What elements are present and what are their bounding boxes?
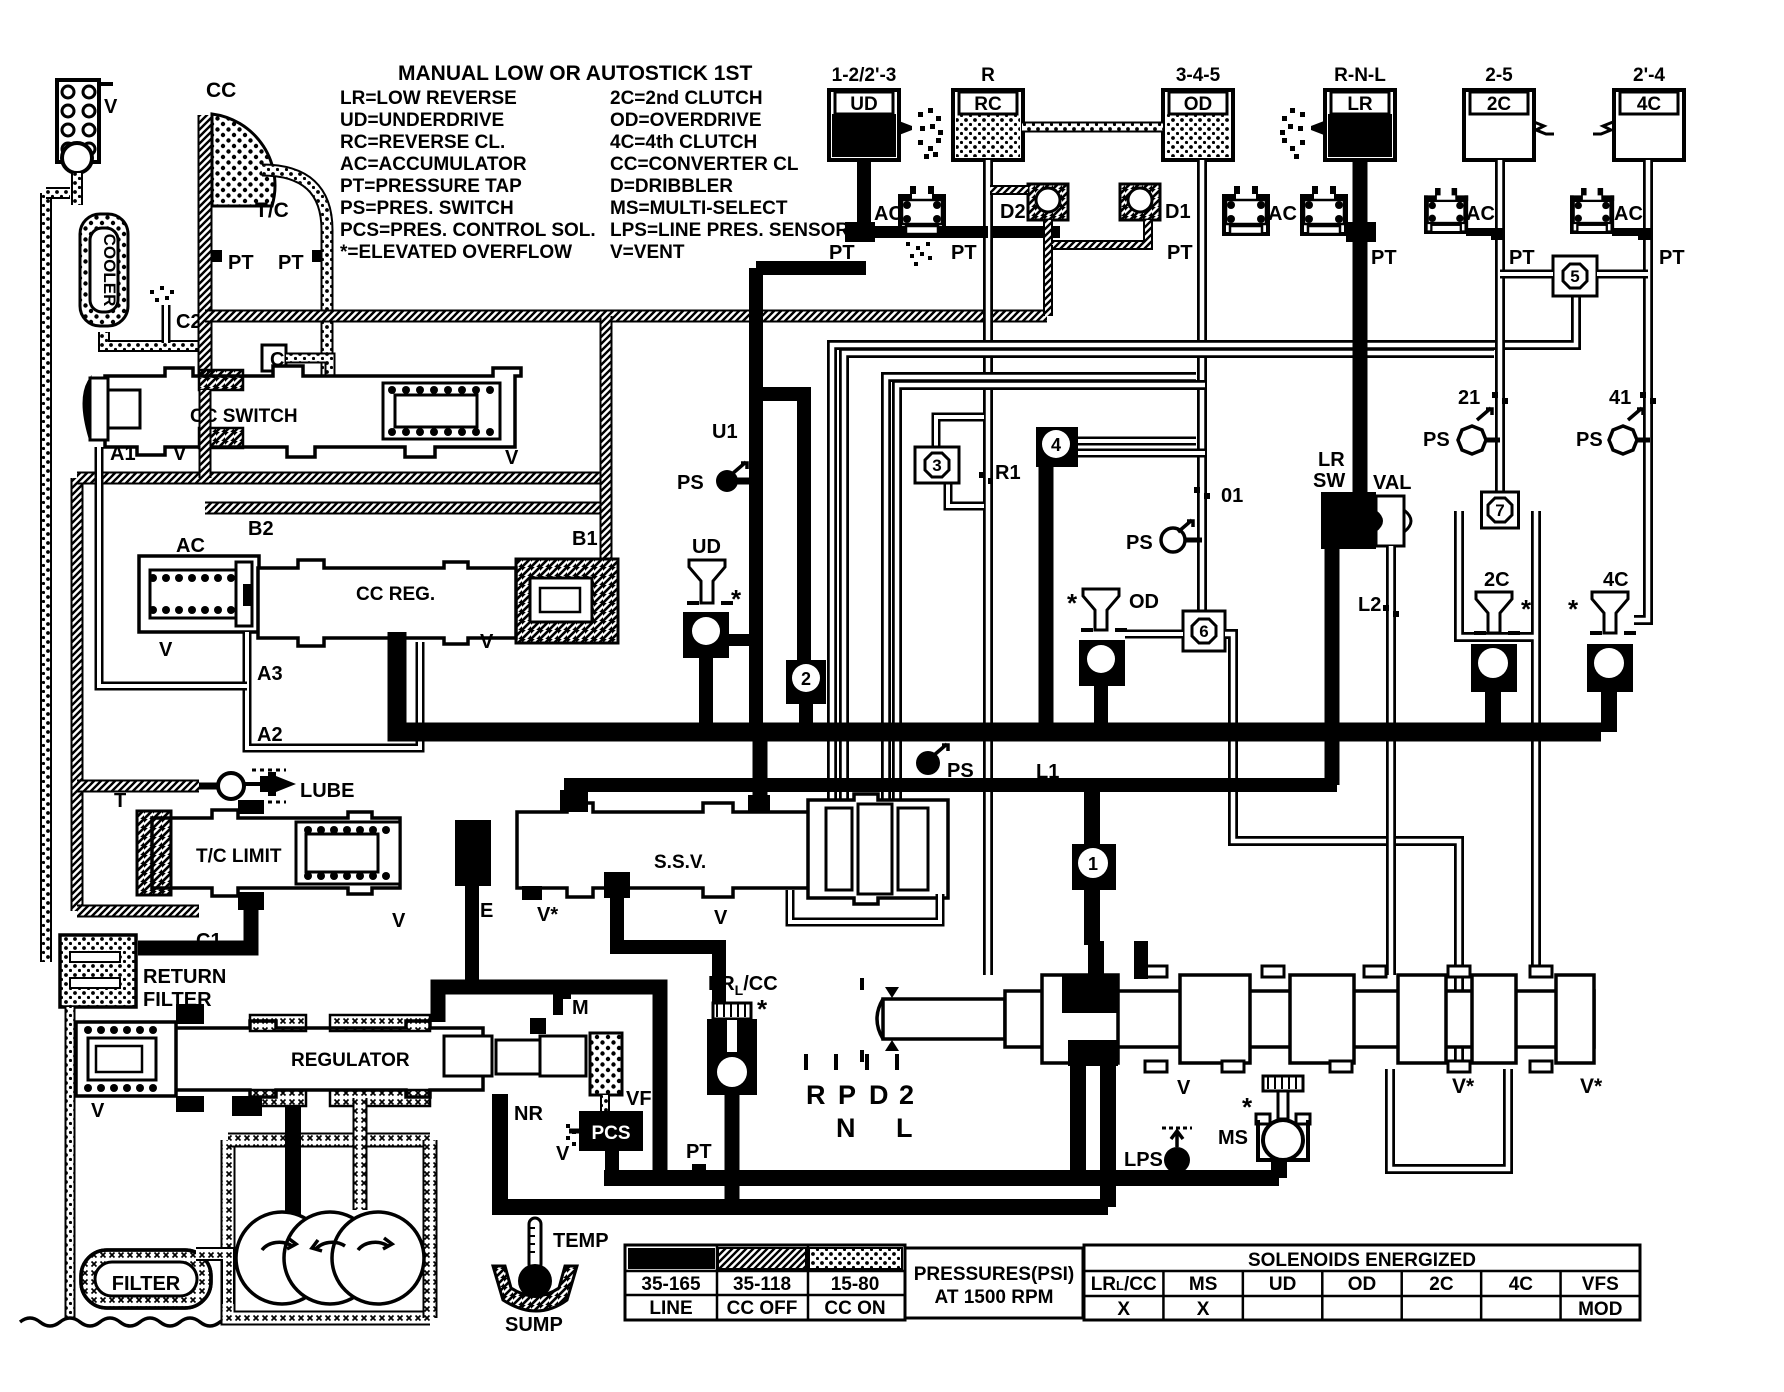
C port box: [262, 345, 286, 371]
svg-text:41: 41: [1609, 387, 1631, 409]
svg-text:2'-4: 2'-4: [1633, 65, 1665, 86]
solenoids table: [1084, 1245, 1640, 1320]
svg-text:2C: 2C: [1429, 1274, 1454, 1295]
valve S.S.V.: [517, 803, 939, 897]
orifice R1 tick: [979, 472, 993, 484]
wire UD clutch feed: [857, 160, 871, 232]
svg-text:CC OFF: CC OFF: [727, 1298, 798, 1319]
orifice 1 box overlay: [1072, 844, 1116, 890]
valve 7 junction: [1482, 492, 1519, 528]
wire from valve 6 down: [1225, 634, 1459, 1061]
svg-text:CC REG.: CC REG.: [356, 584, 435, 605]
svg-text:35-118: 35-118: [733, 1274, 791, 1295]
svg-text:PT: PT: [686, 1141, 712, 1163]
svg-text:R1: R1: [995, 462, 1021, 484]
sump bowl: [493, 1266, 577, 1311]
svg-text:*: *: [1568, 594, 1579, 624]
svg-text:3: 3: [932, 456, 941, 475]
wire L1 bus overlay: [564, 778, 1337, 792]
svg-text:V: V: [392, 910, 406, 932]
dribbler D2: [1028, 184, 1068, 220]
wire A1 line: [99, 447, 247, 686]
wire SSV drain to LRL/CC: [617, 890, 719, 1008]
wire hatched bus B2 lower: [205, 502, 606, 515]
T/C dotted wall right: [262, 170, 327, 378]
CC REG hatched end B1: [516, 559, 618, 643]
svg-text:CC=CONVERTER CL: CC=CONVERTER CL: [610, 154, 799, 175]
svg-text:7: 7: [1495, 501, 1504, 520]
valve T/C LIMIT: [152, 810, 400, 896]
wire web W1: [832, 295, 1576, 809]
wire 4 feed down: [1039, 467, 1054, 732]
svg-text:E: E: [480, 900, 493, 922]
wire MS to bus4: [1271, 1160, 1287, 1178]
wire return filter down: [65, 1007, 76, 1320]
svg-text:PT: PT: [1509, 247, 1535, 269]
svg-text:V*: V*: [537, 904, 558, 926]
svg-text:UD: UD: [692, 536, 721, 558]
svg-text:R: R: [806, 1080, 826, 1110]
svg-text:*=ELEVATED OVERFLOW: *=ELEVATED OVERFLOW: [340, 242, 572, 263]
wire 2C clutch line: [1495, 160, 1505, 501]
svg-text:OD: OD: [1348, 1274, 1377, 1295]
manual valve lands: [1042, 975, 1118, 1063]
svg-text:PT: PT: [1659, 247, 1685, 269]
wire OD clutch line: [1197, 160, 1207, 618]
svg-text:LUBE: LUBE: [300, 780, 354, 802]
svg-text:V: V: [556, 1143, 570, 1165]
x-hatch pump channel right: [423, 1140, 438, 1318]
wire SSV loop below: [790, 890, 940, 922]
wire L1 bus: [573, 785, 1337, 810]
svg-text:MANUAL LOW OR AUTOSTICK 1ST: MANUAL LOW OR AUTOSTICK 1ST: [398, 62, 752, 85]
wire C1 line: [138, 895, 251, 948]
wire bus4: [604, 1170, 1279, 1186]
svg-text:V: V: [159, 639, 173, 661]
svg-text:V: V: [91, 1100, 105, 1122]
SSV right spool: [808, 794, 948, 904]
svg-text:S.S.V.: S.S.V.: [654, 852, 706, 873]
svg-text:01: 01: [1221, 485, 1243, 507]
svg-text:4: 4: [1051, 435, 1061, 455]
svg-text:PS: PS: [1576, 429, 1603, 451]
pressure legend table: [625, 1245, 905, 1320]
wire 4 line: [1078, 437, 1196, 446]
svg-text:V*: V*: [1580, 1075, 1603, 1098]
svg-text:PT: PT: [1167, 242, 1193, 264]
wire LR valve to L1 overlay: [1325, 549, 1340, 785]
wire main line bus: [397, 632, 1601, 732]
accumulator AC at UD: [898, 186, 946, 236]
svg-text:UD: UD: [1269, 1274, 1296, 1295]
svg-text:PS: PS: [1423, 429, 1450, 451]
valve 6 junction: [1183, 611, 1225, 651]
wire web R1 to valve 3: [936, 417, 984, 451]
valve REGULATOR: [170, 1021, 483, 1097]
wire UD line overlay: [749, 268, 763, 732]
wire LR clutch feed: [1353, 160, 1368, 496]
filter pickup: [81, 1250, 211, 1308]
wire UD to SSV port: [753, 732, 768, 800]
svg-text:A3: A3: [257, 663, 283, 685]
svg-text:SOLENOIDS ENERGIZED: SOLENOIDS ENERGIZED: [1248, 1250, 1476, 1271]
CC SWITCH spring: [383, 383, 500, 439]
svg-text:LR=LOW REVERSE: LR=LOW REVERSE: [340, 88, 517, 109]
svg-text:MOD: MOD: [1578, 1299, 1622, 1320]
svg-text:U1: U1: [712, 421, 738, 443]
wire dotted left return channel: [40, 193, 52, 962]
wire web W3: [886, 377, 1196, 809]
svg-text:LRL/CC: LRL/CC: [1091, 1274, 1157, 1295]
svg-text:PRESSURES(PSI): PRESSURES(PSI): [914, 1264, 1074, 1285]
wire A3 A2 line: [247, 632, 420, 748]
sump surface wave: [20, 1318, 240, 1326]
svg-text:PT=PRESSURE TAP: PT=PRESSURE TAP: [340, 176, 522, 197]
svg-text:SUMP: SUMP: [505, 1314, 563, 1336]
wire bus3 overlay: [438, 980, 660, 995]
wire 5 connections: [1500, 270, 1553, 279]
svg-text:D1: D1: [1165, 201, 1191, 223]
wire web W4: [897, 385, 1205, 809]
connector squiggle 2C: [1534, 122, 1554, 134]
svg-text:D=DRIBBLER: D=DRIBBLER: [610, 176, 733, 197]
svg-text:CC ON: CC ON: [824, 1298, 885, 1319]
svg-text:AC: AC: [1268, 203, 1297, 225]
valve manual spool: [883, 999, 1005, 1039]
wire bus5 overlay: [500, 1199, 1108, 1215]
svg-text:AC: AC: [176, 535, 205, 557]
x-hatch inner channel: [353, 1098, 368, 1210]
wire hatched T/C to D2 bus: [205, 310, 1047, 323]
svg-text:P: P: [838, 1080, 856, 1110]
valve CC SWITCH: [105, 366, 521, 457]
wire hatched RC to D2: [990, 185, 1028, 195]
wire bus3: [438, 987, 660, 1178]
svg-text:PT: PT: [951, 242, 977, 264]
svg-text:UD=UNDERDRIVE: UD=UNDERDRIVE: [340, 110, 504, 131]
wire 4C clutch line: [1643, 160, 1653, 595]
orifice 2: [786, 660, 826, 704]
wire hatched dribbler channel: [1048, 220, 1148, 245]
vent spray at UD: [899, 121, 912, 135]
wire RC clutch line: [983, 160, 993, 975]
T/C converter clutch dotted blob: [212, 114, 275, 206]
svg-text:V: V: [714, 907, 728, 929]
SSV black ports: [560, 790, 588, 812]
svg-text:PT: PT: [278, 252, 304, 274]
wire L1 to SSV: [566, 798, 580, 810]
wire 4C right loop: [1634, 595, 1648, 620]
solenoid E: [455, 820, 491, 886]
dribbler D1: [1120, 184, 1160, 220]
svg-text:*: *: [1242, 1092, 1253, 1122]
svg-text:X: X: [1197, 1299, 1210, 1320]
svg-text:2: 2: [899, 1080, 914, 1110]
svg-text:LINE: LINE: [649, 1298, 692, 1319]
svg-text:V: V: [1177, 1077, 1191, 1099]
svg-text:VF: VF: [626, 1088, 652, 1110]
svg-text:OD=OVERDRIVE: OD=OVERDRIVE: [610, 110, 762, 131]
manual valve port bumps: [1145, 966, 1167, 977]
svg-text:MS: MS: [1218, 1127, 1248, 1149]
svg-text:*: *: [731, 584, 742, 614]
svg-text:UD: UD: [850, 94, 877, 115]
svg-text:PS: PS: [1126, 532, 1153, 554]
svg-text:V: V: [104, 96, 118, 118]
svg-text:V: V: [480, 631, 494, 653]
svg-text:REGULATOR: REGULATOR: [291, 1050, 410, 1071]
svg-text:4C=4th CLUTCH: 4C=4th CLUTCH: [610, 132, 757, 153]
wire hatched through CC SWITCH: [199, 390, 212, 478]
svg-text:PT: PT: [228, 252, 254, 274]
svg-text:L: L: [896, 1113, 913, 1143]
svg-text:SW: SW: [1313, 470, 1345, 492]
svg-text:D2: D2: [1000, 201, 1026, 223]
wire PCS to bus4: [604, 1151, 612, 1178]
wire VF dotted: [600, 1095, 610, 1111]
svg-text:C1: C1: [196, 930, 222, 952]
svg-text:2C: 2C: [1487, 94, 1512, 115]
svg-text:LR: LR: [1347, 94, 1373, 115]
svg-text:4C: 4C: [1603, 569, 1629, 591]
wire LR feed overlay: [1353, 160, 1368, 496]
wire UD branch to orifice 2: [756, 394, 804, 666]
wire dotted C to CC switch: [286, 358, 330, 378]
svg-text:RC=REVERSE CL.: RC=REVERSE CL.: [340, 132, 505, 153]
svg-text:B2: B2: [248, 518, 274, 540]
REGULATOR spring box: [76, 1022, 176, 1096]
T/C LIMIT spring: [296, 822, 400, 884]
wire VAL line down L2: [1386, 546, 1396, 975]
wire bus5: [500, 1199, 1108, 1215]
svg-text:V=VENT: V=VENT: [610, 242, 685, 263]
wire hatched bottom to T frame: [77, 905, 199, 918]
svg-text:R-N-L: R-N-L: [1334, 65, 1386, 86]
svg-text:1: 1: [1088, 854, 1098, 874]
orifice 1 box: [1084, 785, 1100, 860]
svg-text:R: R: [981, 65, 995, 86]
svg-text:FILTER: FILTER: [112, 1273, 181, 1295]
svg-text:PCS=PRES. CONTROL SOL.: PCS=PRES. CONTROL SOL.: [340, 220, 596, 241]
wire UD line down: [756, 261, 866, 275]
svg-text:T/C LIMIT: T/C LIMIT: [196, 846, 282, 867]
vent spray at LR: [1311, 121, 1324, 135]
svg-text:AC=ACCUMULATOR: AC=ACCUMULATOR: [340, 154, 527, 175]
svg-text:4C: 4C: [1509, 1274, 1534, 1295]
svg-text:6: 6: [1199, 622, 1208, 641]
svg-text:LR: LR: [1318, 449, 1345, 471]
svg-text:RC: RC: [974, 94, 1002, 115]
manual valve left arrows: [885, 987, 899, 1051]
svg-text:M: M: [572, 997, 589, 1019]
wire dotted vent down to left channel: [46, 187, 70, 199]
wire orifice 1 feed overlay: [1084, 785, 1100, 860]
C2 tap: [162, 305, 171, 343]
wire web W2: [844, 353, 1494, 809]
svg-text:LPS=LINE PRES. SENSOR: LPS=LINE PRES. SENSOR: [610, 220, 849, 241]
svg-text:L2: L2: [1358, 594, 1381, 616]
wire 2C valve loop: [1459, 511, 1536, 975]
svg-text:B1: B1: [572, 528, 598, 550]
return filter: [60, 935, 136, 1007]
svg-text:PT: PT: [829, 242, 855, 264]
connector squiggle 4C: [1593, 122, 1613, 134]
svg-text:V: V: [173, 443, 187, 465]
svg-text:PCS: PCS: [591, 1123, 630, 1144]
svg-text:15-80: 15-80: [831, 1274, 880, 1295]
svg-text:2C=2nd CLUTCH: 2C=2nd CLUTCH: [610, 88, 763, 109]
svg-text:LRL/CC: LRL/CC: [708, 973, 778, 998]
svg-text:AT 1500 RPM: AT 1500 RPM: [935, 1287, 1054, 1308]
svg-text:2C: 2C: [1484, 569, 1510, 591]
svg-text:*: *: [1521, 594, 1532, 624]
svg-text:PS=PRES. SWITCH: PS=PRES. SWITCH: [340, 198, 514, 219]
svg-text:2: 2: [801, 669, 811, 689]
x-hatch pump channel left: [228, 1140, 430, 1318]
svg-text:NR: NR: [514, 1103, 543, 1125]
wire manual valve drops: [1070, 1063, 1086, 1178]
wire hatched D2 to bus: [1043, 245, 1053, 316]
svg-text:T: T: [114, 790, 126, 812]
vent V top-left: [57, 80, 99, 162]
cooler: [80, 214, 128, 326]
wire main line bus overlay: [397, 723, 1601, 742]
svg-text:35-165: 35-165: [641, 1274, 701, 1295]
svg-text:AC: AC: [874, 203, 903, 225]
accumulator AC at 2C: [1424, 188, 1468, 234]
svg-text:*: *: [1067, 588, 1078, 618]
manual valve black sections: [1062, 975, 1118, 1013]
svg-text:4C: 4C: [1637, 94, 1662, 115]
accumulator AC at 4C: [1570, 188, 1614, 234]
wire hatched vertical to CC REG: [600, 316, 613, 560]
svg-text:OD: OD: [1184, 94, 1213, 115]
svg-text:RETURN: RETURN: [143, 966, 226, 988]
wire regulator to pump: [285, 1106, 301, 1216]
svg-text:D: D: [869, 1080, 889, 1110]
valve 3 junction: [915, 447, 959, 483]
svg-text:V: V: [505, 447, 519, 469]
svg-text:LPS: LPS: [1124, 1149, 1163, 1171]
svg-text:PS: PS: [677, 472, 704, 494]
CC SWITCH hatch land: [199, 370, 243, 390]
svg-text:2-5: 2-5: [1485, 65, 1513, 86]
valve CC REG: [258, 560, 516, 646]
wire hatched left vertical channel: [71, 478, 84, 911]
svg-text:A1: A1: [110, 443, 136, 465]
svg-text:MS=MULTI-SELECT: MS=MULTI-SELECT: [610, 198, 788, 219]
svg-text:A2: A2: [257, 724, 283, 746]
svg-text:MS: MS: [1189, 1274, 1218, 1295]
svg-text:N: N: [836, 1113, 856, 1143]
torque converter T/C left wall: [198, 115, 213, 447]
wire manual valve right loop: [1390, 1069, 1508, 1169]
svg-text:AC: AC: [1466, 203, 1495, 225]
svg-text:*: *: [757, 994, 768, 1024]
svg-text:VAL: VAL: [1373, 472, 1412, 494]
pump circles: [236, 1212, 328, 1304]
svg-text:CC: CC: [206, 79, 236, 102]
wire hatched bus B2 upper: [77, 472, 606, 485]
wire 4 feed overlay: [1039, 467, 1054, 732]
x-hatch pump channel top: [228, 1133, 430, 1148]
svg-text:3-4-5: 3-4-5: [1176, 65, 1221, 86]
svg-text:OD: OD: [1129, 591, 1159, 613]
svg-text:PT: PT: [1371, 247, 1397, 269]
accumulator AC at LR: [1300, 186, 1348, 236]
REGULATOR x-hatch lands: [250, 1015, 306, 1031]
dotted channel RC to OD: [1022, 122, 1163, 133]
svg-text:AC: AC: [1614, 203, 1643, 225]
wire LR valve to L1: [1325, 549, 1340, 785]
svg-text:5: 5: [1570, 267, 1579, 286]
wire NR line: [500, 1094, 640, 1207]
svg-text:COOLER: COOLER: [100, 234, 119, 307]
orifice 4 box: [1036, 427, 1078, 467]
valve 5 junction: [1553, 256, 1597, 296]
svg-text:T/C: T/C: [255, 199, 289, 222]
svg-text:V*: V*: [1452, 1075, 1475, 1098]
wire dotted cooler to vent: [71, 173, 83, 205]
svg-text:X: X: [1117, 1299, 1130, 1320]
wire valve 3 drain: [948, 478, 984, 506]
wire bus4 overlay: [604, 1170, 1279, 1186]
svg-text:VFS: VFS: [1582, 1274, 1619, 1295]
svg-text:TEMP: TEMP: [553, 1230, 609, 1252]
pressure switch line bus: [916, 751, 940, 775]
x-hatch filter link: [196, 1254, 228, 1304]
svg-text:1-2/2'-3: 1-2/2'-3: [832, 65, 897, 86]
REGULATOR right works: [444, 1036, 492, 1076]
accumulator AC at OD: [1222, 186, 1270, 236]
pressures box: [905, 1248, 1083, 1318]
wire LRL/CC down: [725, 1095, 740, 1207]
svg-text:21: 21: [1458, 387, 1480, 409]
wire dotted cooler bottom to C2 channel: [104, 332, 205, 346]
